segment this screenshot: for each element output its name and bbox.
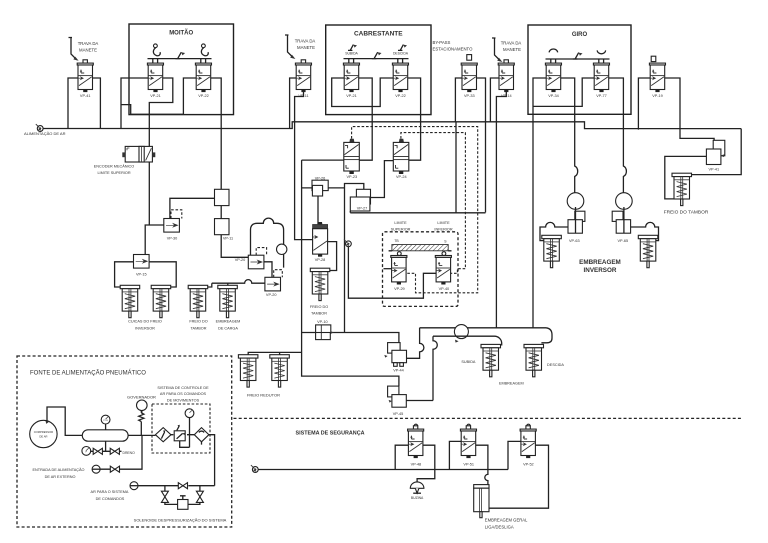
svg-text:TRAVA DA: TRAVA DA [501,41,522,46]
wire vp41 left to supply [68,78,78,129]
label embreagem geral [485,518,528,530]
wire bus giro [533,78,594,106]
hatched bar [389,245,452,251]
buzina horn [410,482,424,500]
svg-text:SUPERIOR: SUPERIOR [391,227,411,231]
svg-text:VP-63: VP-63 [569,239,580,243]
svg-text:FREIO DO TAMBOR: FREIO DO TAMBOR [664,210,709,216]
svg-text:DE CARGA: DE CARGA [218,327,238,331]
wire compressor to receiver [47,407,82,435]
label TRAVA DA MANETE 3 [501,41,522,53]
wire bullseye to vp40 [348,247,436,299]
svg-text:VP-40: VP-40 [439,287,450,291]
lever icon moitao center [175,52,185,58]
wire vp14 left [490,78,499,122]
box CABRESTANTE [326,25,431,115]
dashed border seguranca [234,417,743,419]
pilot dash outer vp23 [352,127,478,293]
svg-text:DE COMANDOS: DE COMANDOS [96,497,125,501]
valve VP-22 moitao [195,63,211,98]
wire solenoid connects [165,502,200,504]
cylinder inversor right [638,235,658,267]
svg-text:VP-22: VP-22 [198,94,209,98]
svg-text:INFERIOR: INFERIOR [434,227,452,231]
svg-text:MOITÃO: MOITÃO [169,30,193,37]
wire bridge right [199,486,201,492]
svg-text:VP-33: VP-33 [464,94,475,98]
component VP-44 [384,343,406,373]
node bullseye seguranca [251,465,258,472]
wire tee to vp23 [302,159,344,161]
circle drum [454,325,468,339]
regulator [174,425,185,441]
svg-text:TAMBOR: TAMBOR [191,327,207,331]
bowtie bridge right [196,491,203,502]
svg-text:LIMITE: LIMITE [394,221,407,225]
svg-text:COMPRESSOR: COMPRESSOR [34,430,53,434]
label BY-PASS ESTACIONAMENTO [433,40,474,52]
svg-text:FONTE DE ALIMENTAÇÃO PNEUMÁTIC: FONTE DE ALIMENTAÇÃO PNEUMÁTICO [30,370,146,377]
wire vp45 right [406,400,433,402]
component VP-45 [388,386,407,416]
wire vp15 right to cyl2 [149,262,176,287]
valve VP-24 [393,139,409,179]
svg-text:CABRESTANTE: CABRESTANTE [354,31,403,38]
wire bridge left [164,486,166,492]
wire vp21 right long down [149,78,173,225]
bracket left inversor [540,222,568,240]
label limite inferior [434,221,452,231]
wire vp33 right long [477,78,486,213]
bowtie entrada [110,466,119,472]
component VP-26 [312,180,328,196]
wire vp24 left down [370,161,393,198]
label TRAVA DA MANETE 2 [295,39,316,51]
wire entrada [100,435,142,469]
wire vp29 left stub [384,268,392,270]
svg-text:VP-19: VP-19 [652,94,663,98]
label embreagem inversor [579,259,621,274]
cylinder freio do tambor right [664,173,709,215]
svg-text:P IN: P IN [103,420,108,422]
svg-text:FREIO REDUTOR: FREIO REDUTOR [247,393,280,398]
valve VP-34 giro [545,63,561,98]
box LIMITE dashed [383,232,459,307]
valve VP-77 giro [593,63,609,98]
lever icon cabr left [348,45,357,51]
wire vp21c right to vp23 [359,78,373,160]
component VP-30 [164,219,180,241]
svg-text:EMBREAGEM GERAL: EMBREAGEM GERAL [485,518,528,523]
svg-text:DE MOVIMENTOS: DE MOVIMENTOS [167,399,200,403]
encoder mecanico [94,146,156,174]
lever bracket 1 [69,38,77,60]
label ar para o sistema [91,490,129,501]
bypass loop regulator [180,441,190,448]
label cuicas do freio inversor [128,320,162,331]
svg-text:VP-15: VP-15 [136,273,147,277]
component VP-41 freio tambor [706,140,724,171]
wire vp34 left long to drum [533,78,546,328]
cylinder cuica 2 [151,285,171,317]
svg-text:MANETE: MANETE [297,45,315,50]
governor [137,400,148,413]
wire vp41 right down [93,78,101,129]
valve VP-48 [408,424,424,466]
wire vp11 left to supply [290,78,297,128]
valve VP-33 bypass [461,55,477,98]
wire bus moitao [121,78,196,114]
roller vp29 [397,252,401,256]
wire through vp63 [575,207,577,233]
svg-text:BUZINA: BUZINA [411,496,424,500]
svg-text:BY-PASS: BY-PASS [433,40,451,45]
wire vp15 left to cyl1 [115,262,134,287]
actuator bar cabrestante [344,59,409,64]
cylinder freio redutor 2 [270,355,290,387]
component VP-11 double square [215,189,234,240]
wire supply branch down [455,122,457,213]
svg-text:LIGA/DESLIGA: LIGA/DESLIGA [485,525,514,530]
svg-text:ENCODER MECÂNICO: ENCODER MECÂNICO [94,164,135,169]
wire drum right drop to descida [541,328,552,343]
svg-text:SUBIDA: SUBIDA [461,360,476,364]
svg-text:VP-51: VP-51 [463,463,474,467]
svg-text:VP-22: VP-22 [395,94,406,98]
svg-text:ENTRADA DE ALIMENTAÇÃO: ENTRADA DE ALIMENTAÇÃO [32,467,84,472]
svg-text:MANETE: MANETE [503,47,521,52]
wire vp19 left [638,78,650,130]
wire main fonte line [128,435,215,486]
filter diamond [155,428,171,442]
box sistema de controle dashed [152,404,210,453]
pilot dash inner vp24 [401,133,466,274]
wire ar para [138,485,215,487]
cylinder embreagem geral [474,485,489,518]
svg-text:EMBREAGEM: EMBREAGEM [499,382,524,386]
cylinder cuica 1 [120,285,140,317]
wire giro down 1 with jog [561,78,578,193]
component VP-65 [612,211,630,243]
roller vp40 [442,252,446,256]
component VP-63 [568,211,585,243]
valve VP-52 [520,424,536,466]
lever bracket 2 [285,35,294,58]
pilot dash vp20a [256,248,266,256]
wire vp20a to vp20b [264,262,272,278]
svg-text:VP-24: VP-24 [396,175,407,179]
actuator bar moitao [148,59,212,64]
svg-text:VP-41: VP-41 [709,168,720,172]
arc icon giro left [549,49,557,52]
lever icon giro center [573,53,583,59]
hook icon right [201,44,208,56]
wire through vp65 [623,207,625,233]
lever bracket 3 [492,38,501,61]
ar para sistema connector [130,482,138,490]
component VP-10 [316,325,335,340]
svg-text:VP-10: VP-10 [317,320,328,324]
svg-text:GIRO: GIRO [572,32,588,38]
svg-text:GOVERNADOR: GOVERNADOR [127,395,156,400]
valve VP-28 black cap [313,222,328,262]
node ALIMENTACAO DE AR [24,124,66,136]
label sistema de controle [157,386,209,403]
component VP-20 lower [265,277,281,297]
cylinder freio do tambor center [310,268,330,315]
entrada connector [92,465,100,473]
gauge regulator [185,409,194,447]
svg-text:INVERSOR: INVERSOR [135,327,155,331]
component VP-27 [350,189,370,211]
wire hop left end down [206,283,212,287]
wire vp11 tab to vp28 [295,92,313,240]
svg-text:VP-11: VP-11 [223,237,233,241]
svg-text:TB: TB [394,239,399,243]
cylinder descida [524,344,564,376]
box MOITAO [129,24,234,115]
wire vp21 left to supply [121,78,148,129]
wire vp14 tab long [496,92,506,328]
wire drum line L1 [302,333,399,343]
gauge circle housing [277,244,287,254]
solenoid box [178,496,188,510]
valve VP-22 cabrestante [392,63,408,98]
label freio do tambor mid [189,320,207,331]
wire hop line to vp20b [212,280,265,284]
lever icon cabr right [398,45,407,51]
wire drum second line [433,336,502,345]
svg-text:LIMITE: LIMITE [437,221,450,225]
hook icon left [153,44,160,56]
wire vp51 left [449,441,461,469]
svg-text:FREIO DO: FREIO DO [310,305,328,309]
wire drum left drop to vp44 [407,328,424,359]
svg-text:SUBIDA: SUBIDA [345,52,358,56]
valve VP-11 trava manete cabrestante [295,60,311,98]
cylinder inversor left [542,235,562,267]
component VP-20 upper [235,255,264,269]
wire supply tail drop [689,129,741,175]
svg-text:INVERSOR: INVERSOR [584,267,617,274]
bowtie main horizontal [178,483,187,489]
svg-text:VP-29: VP-29 [394,287,405,291]
label entrada [32,467,84,479]
svg-text:SISTEMA DE CONTROLE DE: SISTEMA DE CONTROLE DE [157,386,209,390]
wire vp51 right to cylinder [476,445,488,484]
lubricator diamond [194,428,209,445]
svg-text:VP-21: VP-21 [150,94,161,98]
valve VP-23 [344,139,360,179]
arc icon giro right [597,50,605,53]
valve VP-41 trava manete moitao [77,60,93,98]
pilot dash vp20b [274,270,283,278]
svg-text:TRAVA DA: TRAVA DA [295,39,316,44]
svg-text:EMBREAGEM: EMBREAGEM [216,320,241,324]
wire tee to vp27 [302,184,364,333]
svg-text:LIMITE SUPERIOR: LIMITE SUPERIOR [97,171,130,175]
bracket right inversor [631,222,659,240]
svg-text:AR PARA O SISTEMA: AR PARA O SISTEMA [91,490,129,494]
svg-text:VP-23: VP-23 [347,175,358,179]
wire vp41b left to cylinder [665,156,707,199]
svg-text:TAMBOR: TAMBOR [311,312,327,316]
valve VP-21 cabrestante [343,63,359,98]
wire vp52 right loop [489,445,548,508]
wire vp22 right long down [211,78,222,189]
node bullseye mid [344,239,351,246]
svg-text:VP-30: VP-30 [167,237,178,241]
box fonte dashed [17,356,232,527]
svg-text:VP-45: VP-45 [393,412,404,416]
wire cyl4 stub [227,283,229,285]
circle embreagem inversor right [616,193,633,210]
wire vp48 right to buzina [417,445,435,481]
svg-text:VP-20: VP-20 [266,293,277,297]
svg-text:ESTACIONAMENTO: ESTACIONAMENTO [433,47,474,52]
svg-text:VP-44: VP-44 [393,369,404,373]
wire giro down 2 with jog [609,78,627,193]
bowtie dreno 2 [110,448,119,454]
wire vp21c left to bus [332,78,394,107]
circle embreagem inversor left [567,193,584,210]
svg-text:TRAVA DA: TRAVA DA [78,41,99,46]
lever icon cabr center [372,52,382,58]
gauge P dreno [82,447,91,456]
wire main seguranca [258,469,508,471]
wire bus y212 [350,211,485,213]
wire vp28 right long down [328,242,337,271]
box GIRO [528,25,631,114]
svg-text:DE AR EXTERNO: DE AR EXTERNO [45,475,76,479]
wire drum mid drop to vp45 [433,336,437,400]
wire dreno [90,441,121,451]
svg-text:SOLENOIDE DESPRESSURIZAÇÃO DO: SOLENOIDE DESPRESSURIZAÇÃO DO SISTEMA [134,518,227,523]
actuator bar giro [546,59,610,63]
receiver tank [82,430,128,441]
wire drum line L2 [420,327,546,329]
wire tee vp15 vp30 [145,225,164,255]
svg-text:DESCIDA: DESCIDA [547,363,564,367]
svg-text:VP-27: VP-27 [357,207,368,211]
svg-text:VP-48: VP-48 [411,463,422,467]
wire seguranca up right [508,441,521,469]
valve VP-21 moitao [147,63,163,98]
bowtie bridge left [161,491,168,502]
svg-text:VP-34: VP-34 [548,94,559,98]
valve VP-51 [460,424,476,466]
valve VP-19 [649,56,665,98]
svg-text:EMBREAGEM: EMBREAGEM [579,259,621,266]
compressor de ar [30,420,57,447]
valve VP-40 [435,256,451,291]
valve VP-14 trava giro [498,60,514,98]
svg-text:VP-52: VP-52 [523,463,534,467]
wire vp19 right to vp41b [665,78,714,140]
wire vp11comp down to vp20a [221,235,248,258]
svg-text:VP-21: VP-21 [346,94,357,98]
cylinder freio redutor 1 [238,355,258,387]
svg-text:ALIMENTAÇÃO DE AR: ALIMENTAÇÃO DE AR [24,131,66,136]
svg-text:VP-65: VP-65 [618,239,629,243]
cylinder embreagem de carga [218,285,238,317]
svg-text:VP-28: VP-28 [315,258,326,262]
svg-text:DESCIDA: DESCIDA [393,52,409,56]
cylinder subida [461,344,500,376]
wire freio redutor bus [248,352,301,354]
svg-text:DRENO: DRENO [123,451,136,455]
label limite superior [391,221,411,231]
svg-text:MANETE: MANETE [79,48,97,53]
svg-text:SISTEMA DE SEGURANÇA: SISTEMA DE SEGURANÇA [296,431,365,437]
svg-text:VP-77: VP-77 [596,94,607,98]
wire long vertical x301 [302,160,399,386]
svg-text:FREIO DO: FREIO DO [189,320,207,324]
svg-text:AR PARA OS COMANDOS: AR PARA OS COMANDOS [160,392,207,396]
gauge P IN [101,415,110,430]
valve VP-29 [391,256,407,291]
arrow under circle [455,340,459,343]
spring governor [139,411,144,436]
svg-text:DE AR: DE AR [39,435,47,439]
component VP-15 [134,255,150,277]
svg-text:VP-20: VP-20 [235,258,246,262]
label TRAVA DA MANETE 1 [78,41,99,53]
bowtie dreno 1 [93,448,102,454]
pilot dash vp30 [171,210,182,219]
label embreagem de carga [216,320,241,331]
svg-text:CUICAS DO FREIO: CUICAS DO FREIO [128,320,162,324]
svg-text:VP-41: VP-41 [80,94,91,98]
wire vp48 feed [395,445,408,469]
wire vp33 left [455,78,462,122]
wire vp26 to vp28 [317,196,319,225]
wire main supply [43,122,741,129]
cylinder freio tambor mid-left [188,285,208,317]
wire vp30 up to vp11comp [170,198,215,218]
housing shape left [251,218,284,268]
wire vp22c right to vp24 [408,78,421,160]
